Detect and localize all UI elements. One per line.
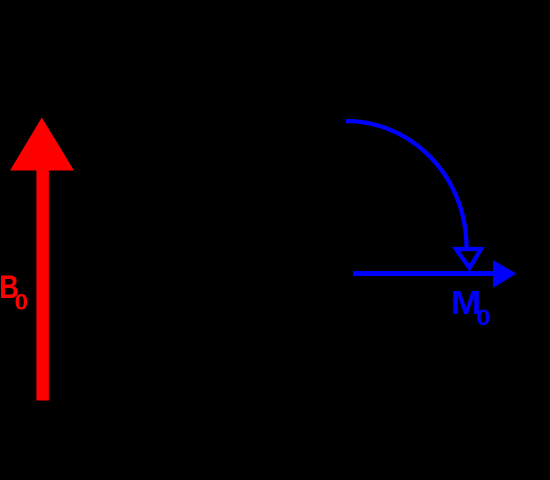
precession curve (blue arc) [346,121,467,247]
open arrowhead of curve [456,249,481,268]
label M0 [451,285,490,331]
M0 arrowhead [493,260,517,288]
svg-text:0: 0 [15,290,28,315]
svg-text:0: 0 [476,306,490,330]
M0 magnetization arrow line (blue, horizontal) [353,271,495,276]
B0 field arrow shaft (red, vertical) [36,169,49,401]
label B0 [0,270,28,314]
B0 field arrowhead [10,118,74,171]
